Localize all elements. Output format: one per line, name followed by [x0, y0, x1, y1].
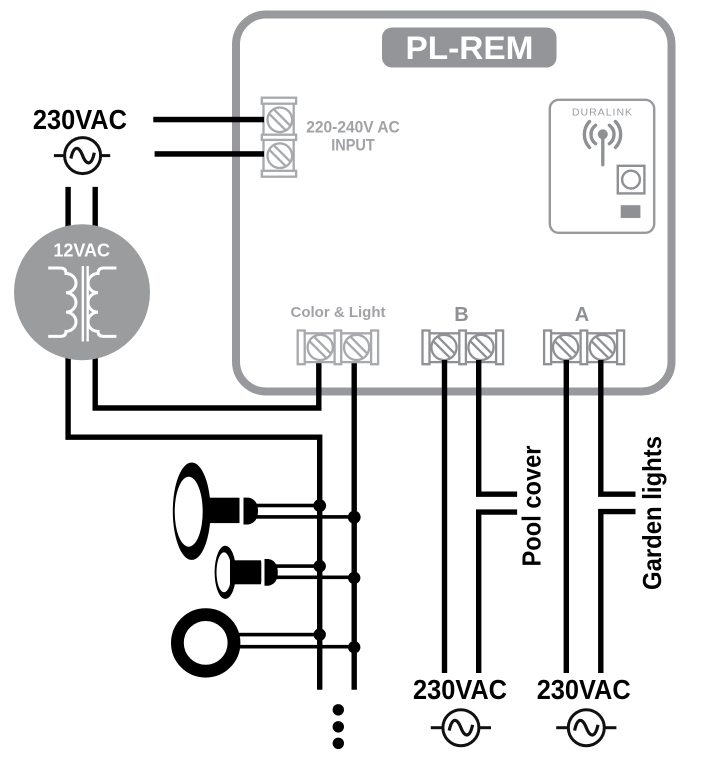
node junction dot lamp2/left bus — [314, 560, 326, 572]
wire from V1 to transformer primary (left) — [68, 187, 320, 690]
enclosure U1 PL-REM controller box — [236, 15, 672, 392]
svg-text:DURALINK: DURALINK — [572, 107, 633, 119]
terminal block J4 A — [544, 331, 624, 365]
wire Color & Light right terminal bus — [352, 360, 357, 690]
wire N feed to input terminal — [155, 151, 264, 157]
svg-text:12VAC: 12VAC — [53, 241, 110, 261]
svg-text:230VAC: 230VAC — [33, 104, 127, 135]
LED window — [621, 205, 641, 218]
svg-text:Pool cover: Pool cover — [517, 446, 547, 567]
node junction dot lamp3/left bus — [314, 628, 326, 640]
svg-text:Color & Light: Color & Light — [291, 304, 386, 321]
AC source V2 — [431, 710, 491, 746]
svg-text:220-240V AC: 220-240V AC — [306, 117, 400, 136]
wire lamp 3 top lead — [238, 633, 320, 637]
antenna icon — [584, 122, 620, 165]
pushbutton SW1 — [618, 166, 645, 194]
wire A left terminal to source — [564, 360, 569, 673]
wire garden lights return stub — [601, 512, 636, 673]
svg-text:230VAC: 230VAC — [413, 674, 507, 705]
AC source V1 — [54, 138, 110, 174]
module A1 DURALINK radio — [550, 100, 654, 233]
svg-text:B: B — [454, 304, 468, 326]
wire B left terminal to source — [442, 360, 447, 673]
wire from V1 to transformer primary (right) / secondary to terminal — [95, 187, 319, 408]
node junction dot lamp3/right bus — [348, 641, 360, 653]
node junction dot lamp1/right bus — [348, 511, 361, 524]
label PL-REM badge — [382, 28, 557, 68]
node ellipsis continuation dots — [333, 704, 344, 715]
svg-text:Garden lights: Garden lights — [637, 436, 667, 590]
lamp E3 ring light — [177, 615, 234, 672]
svg-text:230VAC: 230VAC — [537, 674, 631, 705]
wire lamp 1 bottom lead — [254, 515, 355, 519]
transformer T1 12VAC — [14, 224, 150, 360]
wire lamp 2 top lead — [276, 564, 320, 568]
node junction dot lamp2/right bus — [348, 572, 360, 584]
wire lamp 2 bottom lead — [276, 576, 355, 580]
wire B right terminal to pool cover stub — [479, 360, 517, 494]
AC source V3 — [556, 710, 616, 746]
lamp E1 pool light large — [173, 463, 258, 560]
wire A right terminal to garden lights stub — [601, 360, 636, 494]
wire lamp 3 bottom lead — [238, 645, 355, 649]
svg-text:PL-REM: PL-REM — [406, 30, 534, 66]
svg-text:A: A — [575, 304, 589, 326]
terminal block J2 Color & Light — [298, 331, 378, 365]
wire L feed to input terminal — [153, 117, 264, 123]
wire pool cover return stub — [479, 512, 517, 673]
wire lamp 1 top lead — [254, 504, 320, 508]
svg-text:INPUT: INPUT — [331, 135, 375, 154]
node junction dot lamp1/left bus — [313, 499, 326, 512]
terminal block J1 220-240V AC input — [262, 98, 296, 177]
terminal block J3 B — [423, 331, 504, 365]
lamp E2 pool light small — [215, 546, 278, 599]
